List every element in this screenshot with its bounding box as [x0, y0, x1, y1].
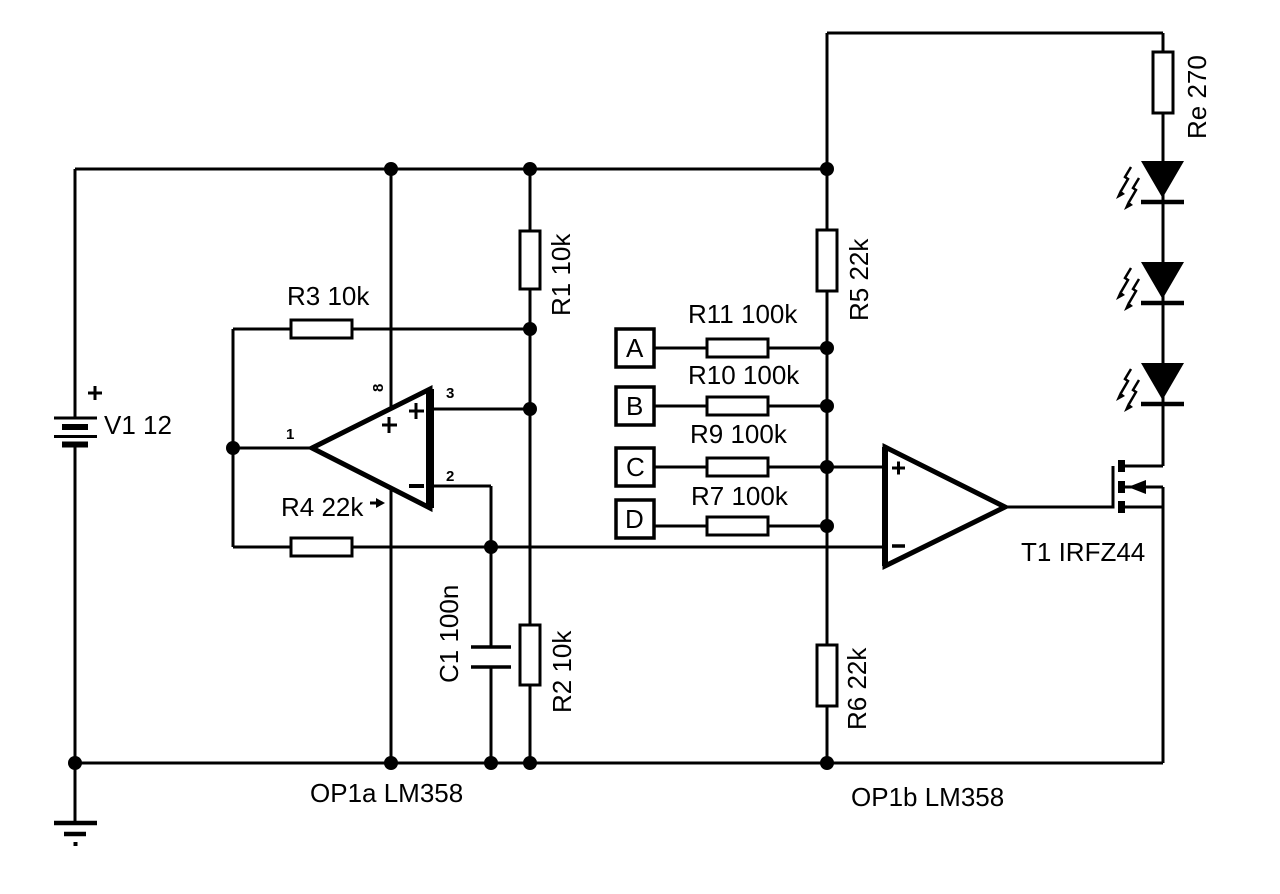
wire C1 bottom lead [490, 667, 493, 763]
svg-text:OP1b LM358: OP1b LM358 [851, 782, 1004, 812]
battery V1 plus mark [88, 386, 102, 400]
node dot pin3 right [523, 402, 537, 416]
svg-text:R2 10k: R2 10k [547, 630, 577, 713]
wire node B lead [654, 405, 827, 408]
LED D3 [1116, 363, 1184, 412]
svg-text:V1 12: V1 12 [104, 410, 172, 440]
wire divider column x=530 through R1 R2 [529, 169, 532, 763]
battery V1 [54, 418, 97, 445]
node dot ground rail x391 [384, 756, 398, 770]
node dot R7 junction [820, 519, 834, 533]
wire node A lead [654, 347, 827, 350]
svg-text:R10 100k: R10 100k [688, 360, 800, 390]
resistor R2 10k [520, 625, 540, 685]
wire source column [1162, 487, 1165, 763]
node A input box [616, 329, 654, 367]
resistor R11 100k [707, 339, 768, 357]
svg-text:T1 IRFZ44: T1 IRFZ44 [1021, 537, 1145, 567]
node dot top rail x827 [820, 162, 834, 176]
node dot ground rail x75 [68, 756, 82, 770]
ground [54, 823, 97, 834]
wire bottom ground rail [75, 762, 1163, 765]
transistor Q1 body arrow [1128, 480, 1146, 494]
resistor R4 22k [291, 538, 352, 556]
svg-text:R5 22k: R5 22k [844, 238, 874, 321]
wire summing column x=827 through R5 R6 [826, 33, 829, 763]
node B input box [616, 387, 654, 425]
svg-text:3: 3 [446, 385, 454, 402]
node dot R3 right [523, 322, 537, 336]
wire node C lead to OP1b noninverting [654, 466, 885, 469]
LED D2 [1116, 262, 1184, 311]
svg-text:OP1a LM358: OP1a LM358 [310, 778, 463, 808]
op-amp U2 OP1b triangle [885, 447, 1005, 566]
wire battery top drop [74, 169, 77, 418]
transistor Q1 T1 IRFZ44 gate bar [1112, 466, 1115, 509]
node dot pin1 loop [226, 441, 240, 455]
svg-text:8: 8 [370, 384, 387, 392]
svg-text:R4 22k: R4 22k [281, 492, 364, 522]
wire C1 top lead [490, 547, 493, 647]
node dot top rail x391 [384, 162, 398, 176]
node dot ground rail x491 [484, 756, 498, 770]
transistor Q1 channel bars [1118, 460, 1125, 513]
wire drain horizontal [1124, 465, 1163, 468]
wire top rail V+ [75, 168, 827, 171]
op-amp U2 OP1b plus input mark [892, 462, 905, 475]
wire op-amp power column x=391 [390, 169, 393, 763]
svg-text:R7 100k: R7 100k [691, 481, 789, 511]
resistor R10 100k [707, 397, 768, 415]
svg-text:B: B [626, 391, 643, 421]
svg-text:R9 100k: R9 100k [690, 419, 788, 449]
resistor R1 10k [520, 231, 540, 289]
svg-text:1: 1 [286, 426, 294, 443]
svg-text:R11 100k: R11 100k [688, 299, 798, 329]
wire node D lead [654, 525, 827, 528]
node dot pin2 C1 [484, 540, 498, 554]
wire R4 row to OP1b inverting input [233, 546, 885, 549]
svg-text:A: A [626, 333, 644, 363]
svg-text:Re 270: Re 270 [1182, 55, 1212, 139]
node dot ground rail x530 [523, 756, 537, 770]
node dot ground rail x827 [820, 756, 834, 770]
LED D1 [1116, 161, 1184, 210]
wire body horizontal [1124, 486, 1163, 489]
resistor R6 22k [817, 645, 837, 706]
op-amp U1 OP1a plus input mark [409, 403, 424, 419]
op-amp U1 OP1a minus input mark [409, 484, 424, 488]
resistor R7 100k [707, 517, 768, 535]
wire pin2 input [434, 486, 491, 547]
capacitor C1 100n [471, 647, 511, 667]
svg-text:C: C [626, 452, 645, 482]
offset arrow near R4 label [370, 502, 378, 505]
node dot R10 junction [820, 399, 834, 413]
svg-text:R1 10k: R1 10k [546, 233, 576, 316]
op-amp U1 OP1a triangle [312, 389, 430, 508]
wire battery bottom to ground rail [74, 444, 77, 763]
resistor R3 10k [291, 320, 352, 338]
resistor Re 270 [1153, 52, 1173, 113]
wire top right to Re [827, 32, 1163, 35]
wire pin3 input [434, 408, 530, 411]
svg-text:C1 100n: C1 100n [434, 585, 464, 683]
wire R3 horizontal [233, 328, 530, 331]
svg-text:2: 2 [446, 468, 454, 485]
node dot R9 junction [820, 460, 834, 474]
svg-text:R6 22k: R6 22k [842, 647, 872, 730]
node dot top rail x530 [523, 162, 537, 176]
wire pin1 output [233, 447, 312, 450]
wire ground stub [74, 763, 77, 821]
svg-text:R3 10k: R3 10k [287, 281, 370, 311]
resistor R9 100k [707, 458, 768, 476]
wire left feedback loop vertical [232, 329, 235, 547]
wire LED / drain column [1162, 33, 1165, 466]
node C input box [616, 448, 654, 486]
svg-text:D: D [625, 504, 644, 534]
op-amp U1 OP1a power plus mark [382, 417, 397, 433]
op-amp U2 OP1b minus input mark [892, 544, 905, 548]
resistor R5 22k [817, 230, 837, 291]
node D input box [616, 500, 654, 538]
wire source horizontal [1124, 506, 1163, 509]
node dot R11 junction [820, 341, 834, 355]
wire OP1b output to gate [1005, 506, 1113, 509]
